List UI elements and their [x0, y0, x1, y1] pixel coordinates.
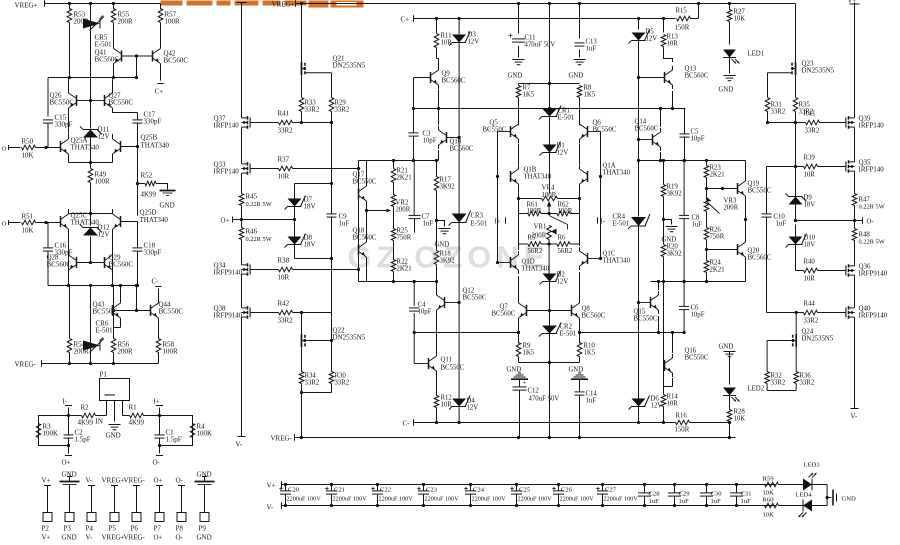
svg-text:1uF: 1uF [692, 222, 703, 229]
svg-text:O: O [2, 221, 7, 228]
svg-text:BC550C: BC550C [463, 295, 487, 302]
svg-text:0.22R 5W: 0.22R 5W [859, 204, 886, 211]
svg-text:DN2535N5: DN2535N5 [802, 67, 835, 75]
svg-text:D4: D4 [467, 398, 476, 405]
svg-text:4K99: 4K99 [129, 419, 145, 427]
svg-text:Q16: Q16 [685, 348, 697, 355]
svg-text:BC550C: BC550C [483, 127, 507, 134]
svg-text:2200uF 100V: 2200uF 100V [425, 496, 460, 503]
svg-text:R50: R50 [22, 138, 34, 146]
svg-text:12V: 12V [98, 133, 110, 141]
svg-text:C25: C25 [519, 487, 531, 494]
svg-text:THAT340: THAT340 [603, 258, 631, 265]
svg-text:GND: GND [62, 534, 77, 542]
svg-text:Q9: Q9 [442, 71, 451, 78]
svg-text:33R2: 33R2 [335, 107, 350, 114]
svg-text:DN2535N5: DN2535N5 [333, 62, 366, 70]
svg-text:150R: 150R [675, 427, 690, 434]
svg-text:200R: 200R [118, 18, 134, 26]
svg-text:BC560C: BC560C [748, 255, 772, 262]
svg-text:33R2: 33R2 [278, 317, 294, 325]
svg-text:12V: 12V [557, 150, 569, 157]
svg-text:GND: GND [62, 471, 77, 479]
svg-text:V+: V+ [267, 482, 276, 490]
svg-text:D6: D6 [651, 396, 660, 403]
svg-text:1uF: 1uF [776, 221, 787, 228]
svg-text:Q11: Q11 [441, 357, 452, 364]
svg-text:V-: V- [86, 534, 93, 542]
svg-text:12V: 12V [98, 231, 110, 239]
svg-text:2200uF 100V: 2200uF 100V [560, 496, 595, 503]
svg-text:33R2: 33R2 [804, 318, 819, 325]
svg-text:18V: 18V [304, 241, 316, 249]
svg-text:R6: R6 [558, 235, 567, 242]
svg-text:THAT340: THAT340 [140, 216, 169, 224]
svg-text:V+: V+ [42, 534, 51, 542]
svg-text:1.5pF: 1.5pF [166, 436, 182, 444]
svg-text:1K5: 1K5 [523, 92, 535, 99]
svg-text:BC550C: BC550C [685, 355, 709, 362]
svg-text:Q1B: Q1B [524, 167, 537, 174]
svg-text:LED4: LED4 [796, 492, 813, 499]
svg-text:Q14: Q14 [635, 119, 647, 126]
svg-text:100R: 100R [542, 192, 557, 199]
svg-text:BC560C: BC560C [635, 126, 659, 133]
svg-text:0.22R 5W: 0.22R 5W [246, 236, 273, 243]
svg-text:R52: R52 [141, 172, 153, 180]
svg-text:C21: C21 [334, 487, 345, 494]
svg-text:V-: V- [267, 504, 274, 512]
svg-text:10pF: 10pF [691, 136, 705, 143]
svg-text:P9: P9 [199, 525, 207, 533]
svg-text:R12: R12 [441, 395, 453, 402]
svg-text:R33: R33 [305, 100, 317, 107]
svg-text:1uF: 1uF [711, 498, 722, 505]
svg-text:330pF: 330pF [55, 121, 73, 129]
svg-text:VR4: VR4 [542, 185, 555, 192]
svg-text:BC550C: BC550C [353, 179, 377, 186]
svg-text:R60: R60 [763, 497, 775, 504]
svg-text:I+: I+ [495, 219, 501, 226]
svg-text:BC550C: BC550C [748, 188, 772, 195]
svg-text:O-: O- [176, 477, 184, 485]
svg-text:O-: O- [153, 459, 161, 467]
svg-text:R14: R14 [667, 394, 679, 401]
svg-text:P8: P8 [176, 525, 184, 533]
svg-text:VREG+: VREG+ [15, 2, 38, 10]
svg-text:GND: GND [508, 73, 523, 80]
svg-text:100R: 100R [95, 178, 111, 186]
svg-text:IN: IN [96, 418, 103, 426]
svg-text:R26: R26 [710, 227, 722, 234]
svg-text:GND: GND [106, 432, 121, 440]
svg-text:C27: C27 [605, 487, 617, 494]
svg-text:C31: C31 [741, 491, 752, 498]
svg-text:10R: 10R [667, 41, 679, 48]
svg-text:R21: R21 [397, 168, 408, 175]
svg-text:BC560C: BC560C [492, 311, 516, 318]
svg-text:Q7: Q7 [500, 304, 509, 311]
svg-text:R10: R10 [584, 343, 596, 350]
svg-text:R8: R8 [584, 85, 593, 92]
svg-text:R38: R38 [278, 257, 290, 265]
svg-text:R16: R16 [676, 413, 688, 420]
svg-text:I-: I- [601, 219, 606, 226]
svg-text:THAT340: THAT340 [141, 142, 170, 150]
svg-text:Q1A: Q1A [603, 163, 616, 170]
svg-text:P1: P1 [100, 371, 108, 379]
svg-text:2200uF 100V: 2200uF 100V [379, 496, 414, 503]
svg-text:1uF: 1uF [649, 498, 660, 505]
svg-text:BC560C: BC560C [164, 57, 189, 65]
svg-text:DN2535N5: DN2535N5 [802, 336, 834, 343]
svg-text:IRFP9140: IRFP9140 [859, 312, 888, 320]
svg-text:IRFP140: IRFP140 [214, 122, 240, 130]
svg-text:10R: 10R [441, 40, 453, 47]
svg-text:10K: 10K [22, 152, 34, 160]
svg-text:R51: R51 [22, 213, 34, 221]
svg-text:P7: P7 [154, 525, 162, 533]
svg-text:33R2: 33R2 [278, 127, 294, 135]
svg-text:BC550C: BC550C [593, 127, 617, 134]
svg-text:Q12: Q12 [463, 288, 475, 295]
svg-text:R43: R43 [804, 111, 816, 118]
svg-text:200R: 200R [74, 348, 90, 356]
svg-text:Q13: Q13 [685, 66, 697, 73]
svg-text:R46: R46 [246, 228, 258, 236]
svg-text:56R2: 56R2 [558, 248, 573, 255]
svg-text:C14: C14 [586, 391, 598, 398]
svg-text:GND: GND [197, 471, 212, 479]
svg-text:GND: GND [435, 242, 450, 249]
svg-text:330pF: 330pF [144, 118, 162, 126]
svg-text:LED3: LED3 [804, 462, 821, 469]
svg-text:200R: 200R [724, 205, 739, 212]
svg-text:O+: O+ [154, 534, 163, 542]
svg-text:Q24: Q24 [802, 329, 814, 336]
svg-text:R27: R27 [734, 9, 746, 16]
svg-text:P4: P4 [86, 525, 94, 533]
svg-text:330pF: 330pF [144, 249, 162, 257]
svg-text:10pF: 10pF [691, 312, 705, 319]
svg-text:10pF: 10pF [418, 309, 432, 316]
svg-text:E-501: E-501 [560, 331, 577, 338]
svg-text:R45: R45 [246, 193, 258, 201]
svg-text:R35: R35 [799, 102, 811, 109]
svg-text:100K: 100K [43, 430, 59, 438]
svg-text:IRFP140: IRFP140 [859, 166, 885, 174]
svg-text:P3: P3 [64, 525, 72, 533]
svg-text:C-: C- [403, 420, 411, 428]
svg-text:R32: R32 [771, 373, 783, 380]
svg-text:R39: R39 [804, 155, 816, 162]
svg-text:BC550C: BC550C [50, 99, 75, 107]
svg-text:12V: 12V [468, 39, 480, 46]
svg-text:R23: R23 [710, 165, 722, 172]
svg-text:VR3: VR3 [724, 198, 737, 205]
svg-text:GND: GND [719, 344, 734, 351]
svg-text:1K5: 1K5 [584, 92, 596, 99]
svg-text:GND: GND [197, 534, 212, 542]
svg-text:E-501: E-501 [613, 221, 630, 228]
svg-text:18V: 18V [304, 203, 316, 211]
svg-text:100R: 100R [527, 208, 542, 215]
svg-text:GND: GND [719, 87, 734, 94]
svg-text:R48: R48 [859, 232, 871, 239]
svg-text:4K99: 4K99 [141, 191, 157, 199]
svg-text:GND: GND [842, 496, 857, 503]
svg-text:1uF: 1uF [679, 498, 690, 505]
svg-text:R5: R5 [528, 235, 537, 242]
svg-text:THAT340: THAT340 [522, 266, 550, 273]
svg-text:R20: R20 [667, 244, 679, 251]
svg-text:100R: 100R [163, 348, 179, 356]
svg-text:Q17: Q17 [353, 172, 365, 179]
svg-text:R36: R36 [800, 373, 812, 380]
svg-text:33R2: 33R2 [771, 380, 786, 387]
svg-text:GND: GND [160, 202, 175, 210]
svg-text:10R: 10R [667, 401, 679, 408]
svg-text:Q8: Q8 [582, 306, 591, 313]
svg-text:C23: C23 [426, 487, 438, 494]
svg-text:R37: R37 [278, 156, 290, 164]
svg-text:V-: V- [86, 477, 93, 485]
svg-text:R47: R47 [859, 197, 871, 204]
svg-text:Q5: Q5 [490, 120, 499, 127]
svg-text:C+: C+ [401, 16, 410, 24]
svg-text:Q6: Q6 [593, 120, 602, 127]
svg-text:BC550C: BC550C [109, 99, 134, 107]
svg-text:0.22R 5W: 0.22R 5W [859, 239, 886, 246]
svg-text:10R: 10R [804, 172, 816, 179]
svg-text:470uF 50V: 470uF 50V [529, 396, 560, 403]
svg-text:1uF: 1uF [741, 498, 752, 505]
svg-text:E-501: E-501 [96, 327, 114, 335]
svg-text:1uF: 1uF [423, 221, 434, 228]
svg-text:1uF: 1uF [339, 220, 350, 228]
svg-text:33R2: 33R2 [771, 109, 786, 116]
svg-text:R15: R15 [676, 8, 688, 15]
svg-text:O+: O+ [154, 477, 163, 485]
svg-text:CR2: CR2 [560, 324, 573, 331]
svg-text:C7: C7 [422, 214, 431, 221]
svg-text:IRFP9140: IRFP9140 [214, 312, 243, 320]
svg-text:O: O [2, 146, 7, 153]
svg-text:O-: O- [867, 219, 875, 226]
svg-text:LED2: LED2 [748, 386, 765, 393]
svg-text:CR3: CR3 [471, 213, 484, 220]
svg-text:C6: C6 [691, 305, 700, 312]
svg-text:R7: R7 [523, 85, 532, 92]
svg-text:R22: R22 [397, 259, 409, 266]
svg-text:18V: 18V [804, 202, 816, 209]
svg-text:C13: C13 [586, 39, 598, 46]
svg-text:THAT340: THAT340 [524, 174, 552, 181]
svg-text:VREG-: VREG- [124, 477, 146, 485]
svg-text:10K: 10K [22, 227, 34, 235]
svg-text:IRFP9140: IRFP9140 [859, 270, 888, 278]
svg-text:V+: V+ [848, 0, 857, 5]
svg-text:D3: D3 [468, 32, 477, 39]
svg-text:D1: D1 [557, 143, 565, 150]
svg-text:Q1D: Q1D [522, 259, 535, 266]
svg-text:C11: C11 [525, 35, 536, 42]
svg-text:2200uF 100V: 2200uF 100V [604, 496, 639, 503]
svg-text:V-: V- [851, 413, 858, 421]
svg-text:4K99: 4K99 [78, 419, 94, 427]
svg-text:C-: C- [152, 278, 160, 286]
svg-text:O+: O+ [62, 459, 71, 467]
svg-text:0.22R 5W: 0.22R 5W [246, 201, 273, 208]
svg-text:VREG-: VREG- [124, 534, 146, 542]
svg-text:C8: C8 [692, 215, 701, 222]
svg-text:R25: R25 [397, 228, 409, 235]
svg-text:1uF: 1uF [586, 398, 597, 405]
svg-text:1K5: 1K5 [523, 350, 535, 357]
svg-text:3K92: 3K92 [440, 184, 456, 191]
svg-text:O-: O- [176, 534, 184, 542]
svg-text:LED1: LED1 [748, 51, 765, 58]
svg-text:2200uF 100V: 2200uF 100V [287, 496, 322, 503]
svg-text:12V: 12V [557, 279, 569, 286]
svg-text:Q18: Q18 [353, 228, 365, 235]
svg-text:470uF 50V: 470uF 50V [525, 42, 556, 49]
svg-text:R24: R24 [710, 260, 722, 267]
svg-text:Q15: Q15 [634, 309, 646, 316]
svg-text:VREG-: VREG- [15, 361, 37, 369]
svg-text:R28: R28 [734, 409, 746, 416]
svg-text:10R: 10R [278, 274, 290, 282]
svg-text:BC560C: BC560C [353, 235, 377, 242]
svg-text:18V: 18V [804, 242, 816, 249]
svg-text:CR1: CR1 [558, 108, 570, 115]
svg-text:THAT340: THAT340 [71, 219, 100, 227]
svg-text:R9: R9 [523, 343, 532, 350]
svg-text:P5: P5 [109, 525, 117, 533]
svg-text:BC560C: BC560C [450, 146, 474, 153]
svg-text:BC560C: BC560C [47, 261, 72, 269]
svg-text:VR2: VR2 [396, 200, 409, 207]
svg-text:150R: 150R [675, 25, 690, 32]
svg-text:750R: 750R [397, 235, 412, 242]
svg-text:O+: O+ [221, 217, 230, 225]
svg-text:C12: C12 [528, 388, 540, 395]
svg-text:IRFP140: IRFP140 [859, 122, 885, 130]
svg-text:Q19: Q19 [748, 181, 760, 188]
svg-text:33R2: 33R2 [800, 380, 815, 387]
svg-text:R44: R44 [804, 301, 816, 308]
svg-text:VREG+: VREG+ [272, 1, 295, 9]
svg-text:2K21: 2K21 [397, 175, 412, 182]
svg-text:VREG-: VREG- [271, 435, 293, 443]
svg-text:2K21: 2K21 [397, 266, 412, 273]
svg-text:12V: 12V [651, 403, 663, 410]
svg-text:CR4: CR4 [613, 214, 626, 221]
svg-text:GND: GND [507, 367, 522, 374]
svg-text:33R2: 33R2 [305, 380, 320, 387]
svg-text:E-501: E-501 [558, 115, 575, 122]
svg-text:D5: D5 [646, 29, 655, 36]
svg-text:12V: 12V [467, 405, 479, 412]
svg-text:BC550C: BC550C [634, 316, 658, 323]
svg-text:Q25B: Q25B [141, 134, 158, 142]
svg-text:R40: R40 [804, 259, 816, 266]
svg-text:THAT340: THAT340 [71, 144, 100, 152]
svg-text:IRFP140: IRFP140 [214, 168, 240, 176]
svg-text:R29: R29 [335, 100, 347, 107]
svg-text:R17: R17 [440, 177, 452, 184]
svg-text:R2: R2 [81, 404, 90, 412]
svg-text:+: + [523, 379, 527, 387]
svg-text:BC560C: BC560C [442, 78, 466, 85]
svg-text:10K: 10K [734, 16, 746, 23]
svg-text:10R: 10R [804, 276, 816, 283]
svg-text:I-: I- [63, 398, 68, 406]
svg-text:C10: C10 [774, 214, 786, 221]
svg-text:10R: 10R [278, 173, 290, 181]
svg-text:C24: C24 [473, 487, 485, 494]
svg-text:VREG+: VREG+ [102, 534, 125, 542]
svg-text:BC550C: BC550C [159, 308, 184, 316]
svg-text:D9: D9 [804, 195, 813, 202]
svg-text:200R: 200R [118, 348, 134, 356]
svg-text:33R2: 33R2 [335, 380, 350, 387]
svg-text:BC560C: BC560C [582, 313, 606, 320]
svg-text:2200uF 100V: 2200uF 100V [333, 496, 368, 503]
svg-text:2200uF 100V: 2200uF 100V [472, 496, 507, 503]
svg-text:1.5pF: 1.5pF [75, 436, 91, 444]
svg-text:3K92: 3K92 [667, 251, 683, 258]
svg-text:IRFP9140: IRFP9140 [214, 269, 243, 277]
svg-text:C20: C20 [288, 487, 300, 494]
svg-text:100K: 100K [197, 430, 213, 438]
svg-text:BC560C: BC560C [109, 261, 134, 269]
svg-text:100R: 100R [558, 208, 573, 215]
svg-text:R34: R34 [305, 373, 317, 380]
svg-text:C3: C3 [423, 131, 432, 138]
svg-text:C28: C28 [649, 491, 661, 498]
svg-text:C4: C4 [418, 302, 427, 309]
svg-text:V-: V- [236, 441, 243, 449]
svg-text:BC550C: BC550C [441, 365, 465, 372]
svg-text:GND: GND [662, 237, 677, 244]
svg-text:▬▬▬: ▬▬▬ [105, 393, 116, 397]
svg-text:R11: R11 [441, 33, 452, 40]
svg-text:D2: D2 [557, 272, 566, 279]
svg-text:R42: R42 [278, 300, 290, 308]
svg-text:C22: C22 [380, 487, 391, 494]
svg-text:R18: R18 [440, 251, 452, 258]
svg-text:C30: C30 [711, 491, 723, 498]
svg-text:200R: 200R [396, 207, 411, 214]
svg-text:33R2: 33R2 [305, 107, 320, 114]
svg-text:10K: 10K [734, 416, 746, 423]
svg-text:10K: 10K [763, 512, 775, 519]
svg-text:R1: R1 [129, 404, 138, 412]
svg-text:2200uF 100V: 2200uF 100V [518, 496, 553, 503]
svg-text:E-501: E-501 [471, 221, 488, 228]
svg-text:56R2: 56R2 [528, 248, 543, 255]
svg-text:3K92: 3K92 [440, 258, 456, 265]
svg-text:100R: 100R [165, 18, 181, 26]
svg-text:I+: I+ [154, 398, 160, 406]
svg-text:2K21: 2K21 [710, 267, 725, 274]
svg-text:10pF: 10pF [423, 138, 437, 145]
svg-text:VREG+: VREG+ [102, 477, 125, 485]
svg-text:R41: R41 [278, 110, 290, 118]
svg-text:V+: V+ [42, 477, 51, 485]
svg-text:33R2: 33R2 [805, 128, 820, 135]
